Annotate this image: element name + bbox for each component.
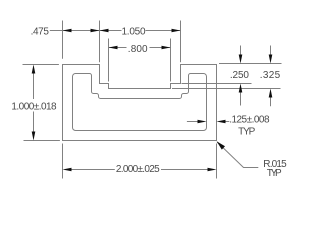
svg-text:.800: .800 [128,44,148,55]
svg-text:1.000±.018: 1.000±.018 [11,101,57,112]
svg-text:.325: .325 [260,70,281,81]
svg-text:TYP: TYP [238,126,256,137]
svg-text:.125±.008: .125±.008 [229,115,270,126]
svg-text:2.000±.025: 2.000±.025 [116,164,160,175]
svg-text:TYP: TYP [267,168,282,179]
svg-text:.475: .475 [31,27,50,38]
svg-text:.250: .250 [230,70,250,81]
svg-text:1.050: 1.050 [122,27,146,38]
